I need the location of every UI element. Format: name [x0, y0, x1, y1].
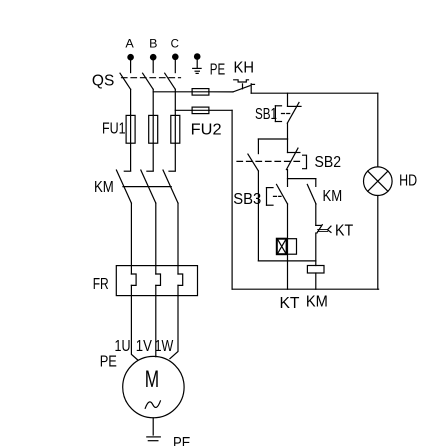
contactor KM main contact C: [163, 170, 178, 203]
wire control tap L1 from phase B: [153, 91, 192, 93]
ground PE top: [193, 68, 201, 73]
pushbutton SB2 NC contact (right): [286, 139, 300, 170]
svg-text:SB2: SB2: [315, 154, 342, 171]
wire phase B stub: [152, 57, 154, 72]
wire SB1 to branch node: [287, 123, 289, 139]
pushbutton SB2 actuator bracket: [303, 155, 307, 169]
fuse FU1 pole A: [126, 115, 135, 143]
wire phase A FU1 to KM: [130, 143, 132, 171]
wire down to KM coil: [315, 261, 317, 266]
svg-text:FR: FR: [93, 276, 109, 293]
svg-text:KM: KM: [323, 188, 343, 205]
fuse FU2 lower element: [192, 107, 209, 114]
svg-text:SB1: SB1: [255, 106, 277, 123]
contactor KM link line: [123, 186, 171, 188]
svg-text:KH: KH: [234, 60, 255, 77]
wire HD branch down: [377, 93, 379, 167]
pushbutton SB1 (NC): [275, 103, 301, 124]
wire phase A FR to motor: [131, 285, 138, 360]
wire bottom rail: [232, 288, 379, 290]
motor tilde: [145, 401, 160, 408]
contactor KM main contact B: [141, 170, 156, 203]
svg-text:M: M: [145, 366, 159, 393]
svg-text:PE: PE: [210, 62, 225, 79]
fuse FU1 pole C: [171, 115, 180, 143]
heater element B: [156, 274, 161, 285]
wire phase A KM to FR: [130, 203, 132, 274]
switch QS pole A blade: [120, 73, 131, 89]
svg-text:B: B: [149, 37, 157, 51]
motor M1 circle: [123, 356, 184, 417]
switch QS pole B blade: [143, 73, 154, 89]
svg-text:HD: HD: [399, 172, 417, 189]
coil KM: [307, 266, 324, 274]
wire KT contact down: [315, 233, 317, 261]
wire phase B FR to motor: [155, 285, 157, 356]
wire SB1 branch top: [287, 93, 289, 106]
wire phase C KM to FR: [177, 203, 179, 274]
wire KM aux to KT contact: [315, 204, 317, 226]
wire phase C FR to motor: [170, 285, 178, 358]
svg-text:PE: PE: [100, 354, 117, 371]
svg-text:1W: 1W: [155, 338, 174, 355]
svg-text:C: C: [171, 37, 180, 51]
node C terminal dot: [172, 54, 179, 61]
svg-text:FU1: FU1: [102, 121, 126, 138]
ground PE bottom: [147, 437, 161, 441]
svg-text:1V: 1V: [136, 338, 152, 355]
svg-text:SB3: SB3: [233, 191, 261, 208]
wire cross horizontal to KM coil: [258, 260, 315, 262]
svg-text:A: A: [125, 37, 133, 51]
coil KT (box with X): [277, 239, 297, 255]
wire phase A QS to FU1: [130, 89, 132, 115]
contact KT delayed closing: [316, 225, 331, 233]
pushbutton SB3 (NO): [267, 184, 288, 205]
wire left return: [231, 110, 233, 289]
svg-text:KM: KM: [306, 293, 328, 310]
wire phase B FU1 to KM: [152, 143, 154, 171]
svg-text:KM: KM: [94, 179, 114, 196]
node B terminal dot: [150, 54, 157, 61]
fuse FU1 pole B: [149, 115, 158, 143]
pushbutton SB2 NO contact (left): [248, 139, 259, 171]
wire phase B QS to FU1: [152, 89, 154, 115]
wire phase B KM to FR: [155, 203, 157, 274]
wire SB2 right down through branch: [287, 170, 289, 187]
lamp HD: [364, 167, 393, 196]
thermal relay FR box: [116, 266, 197, 296]
node PE terminal dot: [194, 53, 201, 60]
fuse FU2 upper element: [192, 89, 209, 96]
wire motor to ground: [152, 418, 154, 435]
switch QS pole C blade: [165, 73, 176, 89]
svg-text:QS: QS: [92, 73, 114, 90]
heater element C: [178, 274, 183, 285]
wire KM coil to bottom rail: [315, 273, 317, 289]
wire phase C FU1 to KM: [174, 143, 176, 171]
svg-text:PE: PE: [173, 435, 191, 446]
wire top rail: [251, 92, 378, 94]
contactor KM main contact A: [116, 170, 131, 203]
wire phase C QS to FU1: [174, 89, 176, 115]
wire phase A stub: [130, 57, 132, 72]
wire SB3 down through KT coil to bottom rail: [287, 204, 289, 289]
pushbutton SB2 link dashed: [237, 160, 303, 162]
heater element A: [131, 274, 136, 285]
node A terminal dot: [127, 54, 134, 61]
thermal contact KH: [233, 80, 255, 93]
wire branch horizontal to SB2 left: [258, 138, 287, 140]
switch QS mechanical link (dashed): [122, 77, 181, 79]
svg-text:KT: KT: [280, 295, 300, 312]
svg-text:1U: 1U: [115, 338, 131, 355]
wire phase C stub: [174, 57, 176, 73]
svg-text:FU2: FU2: [191, 122, 222, 139]
wire branch to KM aux: [288, 178, 316, 180]
wire control tap L2 from phase C: [175, 109, 192, 111]
wire SB2 left down: [257, 171, 259, 261]
wire PE stub: [196, 57, 198, 69]
contact KM auxiliary (NO): [307, 179, 316, 204]
svg-text:KT: KT: [335, 223, 353, 240]
wire HD to bottom rail: [377, 196, 379, 290]
